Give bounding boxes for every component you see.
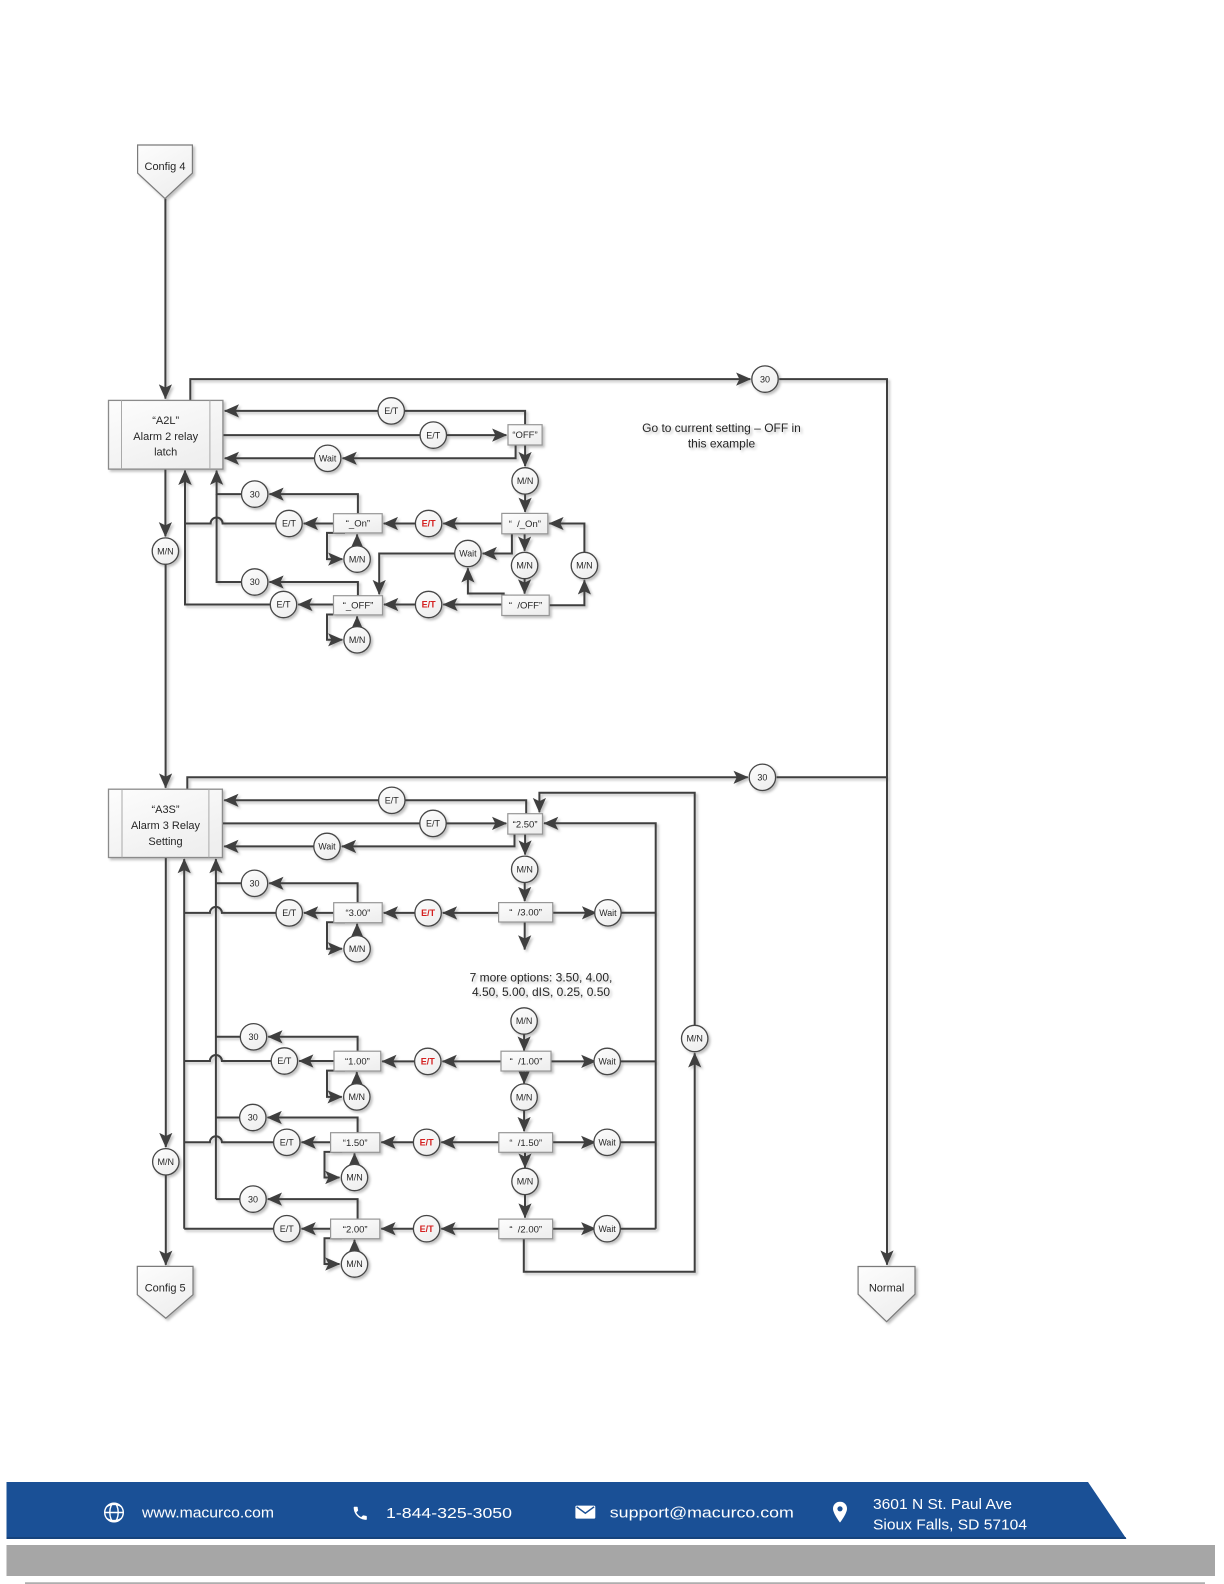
circle M/N under OFF — [512, 468, 538, 494]
svg-text:E/T: E/T — [422, 519, 437, 529]
wire E/T left to A2L bottom with hop — [185, 471, 276, 524]
wire 30 top to Normal — [779, 379, 887, 1265]
icon globe — [105, 1503, 124, 1522]
terminal Normal — [858, 1267, 915, 1322]
wire /3.00 arrow to options note — [524, 922, 526, 950]
wire 30 return rail to A3S — [215, 859, 217, 1199]
wire M/N mid to /OFF — [524, 579, 526, 594]
circle Wait row 3.00 — [595, 900, 621, 926]
wire red E/T 5 to 1.50 — [381, 1141, 413, 1143]
process A2L Alarm 2 relay latch — [109, 400, 223, 469]
icon phone — [354, 1507, 367, 1520]
wire 1.50 to 30 e — [268, 1118, 358, 1133]
svg-text:E/T: E/T — [421, 1057, 436, 1067]
circle M/N right s1 — [571, 552, 597, 578]
svg-text:M/N: M/N — [346, 1259, 363, 1269]
svg-text:M/N: M/N — [158, 1157, 175, 1167]
svg-text:E/T: E/T — [421, 908, 436, 918]
svg-text:“_On”: “_On” — [346, 519, 370, 530]
circle E/T A3S-2.50 — [420, 810, 446, 836]
circle E/T top return s2 — [379, 787, 405, 813]
footer gray band — [7, 1545, 1216, 1576]
svg-text:30: 30 — [250, 577, 260, 587]
svg-text:M/N: M/N — [349, 1092, 366, 1102]
svg-text:E/T: E/T — [384, 406, 399, 416]
svg-text:“ /_On”: “ /_On” — [509, 519, 541, 530]
wire OFF to M/N — [524, 445, 526, 466]
wire A3S to 30 top 2 — [187, 777, 748, 789]
terminal Config 4 — [138, 145, 193, 199]
box OFF — [508, 425, 542, 445]
svg-text:M/N: M/N — [157, 546, 174, 556]
svg-text:1-844-325-3050: 1-844-325-3050 — [386, 1505, 512, 1522]
wire 1.50 to E/T l5 — [302, 1141, 331, 1143]
circle 30 top s1 — [752, 366, 778, 392]
wire /OFF to Wait 2 — [468, 568, 504, 595]
wire 3.00 to E/T l3 — [304, 912, 334, 914]
wire OFF to Wait — [343, 445, 516, 458]
circle 30 row 1.00 — [240, 1024, 266, 1050]
svg-text:Normal: Normal — [869, 1282, 904, 1294]
footer blue band — [7, 1482, 1127, 1539]
wire red E/T to _On — [384, 523, 416, 525]
wire M/N up to _OFF — [356, 616, 358, 627]
svg-text:Alarm 2 relay: Alarm 2 relay — [133, 431, 198, 443]
circle M/N chain top — [511, 1008, 537, 1034]
svg-text:Wait: Wait — [598, 1224, 616, 1234]
svg-text:“ /1.50”: “ /1.50” — [509, 1138, 542, 1149]
svg-text:Wait: Wait — [459, 549, 477, 559]
wire /2.00 to red E/T 6 — [441, 1228, 499, 1230]
svg-text:“1.00”: “1.00” — [345, 1057, 370, 1068]
circle M/N left s1 — [152, 538, 178, 564]
svg-text:this example: this example — [688, 437, 756, 451]
circle red E/T 3.00 — [415, 900, 441, 926]
wire E/T l5 join rail with hop — [184, 1136, 273, 1142]
wire _OFF to E/T left 2 — [298, 604, 333, 606]
wire /_On to Wait 2 — [483, 534, 512, 554]
svg-text:E/T: E/T — [282, 908, 297, 918]
wire M/N to /_On — [524, 494, 526, 512]
box 2.00 — [331, 1219, 380, 1239]
box /3.00 — [499, 903, 553, 922]
wire Wait to A2L — [225, 457, 315, 459]
wire /1.50 to red E/T 5 — [441, 1141, 499, 1143]
circle 30 row 2.00 — [240, 1186, 266, 1212]
circle red E/T 1.50 — [413, 1129, 439, 1155]
svg-text:E/T: E/T — [385, 796, 400, 806]
svg-text:M/N: M/N — [349, 635, 366, 645]
circle Wait row 2.00 — [594, 1216, 620, 1242]
wire E/T left 2 to A2L bottom — [185, 471, 270, 605]
wire /OFF to M/N right — [549, 580, 584, 605]
svg-text:“2.00”: “2.00” — [343, 1224, 368, 1235]
wire /1.50 to Wait r5 — [553, 1141, 596, 1143]
svg-text:30: 30 — [250, 489, 260, 499]
wire /1.00 to M/N chain 1 — [523, 1071, 525, 1083]
wire 2.50 to E/T to A3S (top return) — [224, 800, 526, 813]
wire red E/T 2 to _OFF — [384, 604, 415, 606]
svg-text:“OFF”: “OFF” — [512, 430, 537, 441]
circle Wait 3 s2 — [314, 833, 340, 859]
wire /_On to M/N mid — [524, 534, 526, 551]
box /1.00 — [501, 1051, 551, 1071]
circle 30 row 3.00 — [241, 870, 267, 896]
svg-text:E/T: E/T — [276, 600, 291, 610]
svg-text:Wait: Wait — [598, 1138, 616, 1148]
wire Wait r5 to collector — [620, 1141, 655, 1143]
wire 2.00 to E/T l6 — [302, 1228, 331, 1230]
circle M/N under _On — [344, 546, 370, 572]
icon location pin — [833, 1502, 847, 1523]
circle 30 rail s1 a — [242, 481, 268, 507]
svg-text:latch: latch — [154, 446, 177, 458]
wire Wait r3 to collector — [621, 912, 656, 914]
circle M/N chain 2 — [512, 1168, 538, 1194]
icon envelope — [575, 1506, 595, 1519]
wire /3.00 to Wait r3 — [553, 912, 597, 914]
wire 30 c join — [216, 882, 241, 884]
wire Config4 to A2L — [164, 199, 166, 399]
wire A2L to E/T to OFF — [223, 434, 507, 436]
circle red E/T _On — [415, 510, 441, 536]
wire red E/T 6 to 2.00 — [381, 1228, 413, 1230]
circle red E/T 1.00 — [415, 1048, 441, 1074]
svg-text:E/T: E/T — [280, 1138, 295, 1148]
svg-text:M/N: M/N — [686, 1034, 703, 1044]
wire A3S to E/T to 2.50 — [222, 822, 506, 824]
wire 1.50 M/N loop — [325, 1152, 343, 1178]
svg-text:“3.00”: “3.00” — [345, 908, 370, 919]
circle M/N under 2.50 — [512, 856, 538, 882]
circle 30 row 1.50 — [240, 1104, 266, 1130]
wire 30 to A2L bottom — [217, 471, 242, 495]
wire E/T return rail to A3S — [183, 859, 185, 1229]
box /_On — [502, 513, 548, 533]
svg-text:M/N: M/N — [516, 1016, 533, 1026]
wire _On to 30 — [269, 494, 358, 514]
wire Wait 3 to A3S — [224, 845, 314, 847]
wire 2.50 to Wait 3 — [342, 834, 515, 846]
wire /3.00 to red E/T 3 — [443, 912, 499, 914]
wire A3S to M/N left 2 — [165, 858, 167, 1148]
svg-text:“ /3.00”: “ /3.00” — [509, 908, 542, 919]
wire Wait r4 to collector — [620, 1060, 655, 1062]
circle E/T left 3.00 — [276, 900, 302, 926]
svg-text:“A2L”: “A2L” — [152, 415, 179, 427]
wire 30 d join — [216, 1036, 240, 1038]
svg-text:Wait: Wait — [599, 1057, 617, 1067]
svg-text:Go to current setting – OFF in: Go to current setting – OFF in — [642, 421, 801, 435]
wire 30 e join — [216, 1117, 240, 1119]
svg-text:Config 4: Config 4 — [145, 161, 186, 173]
wire A2L to M/N left — [164, 469, 166, 536]
svg-text:30: 30 — [248, 1113, 258, 1123]
wire 1.00 to 30 d — [268, 1037, 357, 1051]
wire M/N left to A3S — [165, 564, 167, 787]
svg-text:“ /2.00”: “ /2.00” — [509, 1224, 542, 1235]
wire _On to E/T left — [304, 523, 334, 525]
circle M/N under 3.00 — [344, 936, 370, 962]
wire red E/T 4 to 1.00 — [382, 1060, 414, 1062]
svg-text:M/N: M/N — [517, 1177, 534, 1187]
wire 30 top 2 join right rail — [777, 776, 886, 778]
process A3S Alarm 3 Relay Setting — [109, 789, 223, 857]
circle M/N right loop — [682, 1025, 708, 1051]
svg-text:E/T: E/T — [426, 819, 441, 829]
svg-text:30: 30 — [248, 1032, 258, 1042]
circle Wait row 1.50 — [594, 1129, 620, 1155]
svg-text:“_OFF”: “_OFF” — [343, 601, 374, 612]
svg-text:“1.50”: “1.50” — [343, 1138, 368, 1149]
svg-text:30: 30 — [760, 374, 770, 384]
wire Wait r6 to collector — [620, 1228, 655, 1230]
wire 2.00 M/N loop — [325, 1238, 343, 1264]
svg-text:M/N: M/N — [516, 1092, 533, 1102]
bottom hairline — [25, 1582, 1205, 1583]
wire /OFF to red E/T 2 — [443, 604, 502, 606]
wire 3.00 M/N loop — [327, 922, 345, 949]
wire _On M/N loop — [327, 533, 345, 559]
wire 2.50 to M/N 250 — [524, 834, 526, 855]
wire /1.50 to M/N chain 2 — [524, 1152, 526, 1167]
box 2.50 — [508, 814, 543, 834]
wire M/N right loop to 2.50 — [539, 793, 694, 1026]
circle E/T A2L-OFF — [420, 422, 446, 448]
box /2.00 — [499, 1219, 553, 1239]
wire M/N chain to /1.00 — [523, 1034, 525, 1051]
wire 2.00 to 30 f — [268, 1199, 358, 1219]
svg-text:M/N: M/N — [349, 944, 366, 954]
circle Wait 2 s1 — [455, 540, 481, 566]
wire M/N up to 2.00 — [354, 1240, 356, 1252]
svg-text:“ /OFF”: “ /OFF” — [509, 601, 542, 612]
svg-text:E/T: E/T — [277, 1056, 292, 1066]
svg-text:E/T: E/T — [426, 430, 441, 440]
wire Wait 2 to _OFF — [379, 554, 455, 595]
box _OFF — [334, 596, 383, 615]
svg-text:4.50, 5.00, dIS, 0.25, 0.50: 4.50, 5.00, dIS, 0.25, 0.50 — [472, 985, 610, 999]
wire M/N up to 1.50 — [354, 1153, 356, 1165]
circle M/N under _OFF — [344, 627, 370, 653]
svg-text:30: 30 — [249, 879, 259, 889]
svg-text:E/T: E/T — [420, 1138, 435, 1148]
wire M/N up to 3.00 — [356, 924, 358, 936]
wire 3.00 to 30 c — [269, 883, 357, 902]
circle 30 top s2 — [749, 764, 775, 790]
terminal Config 5 — [137, 1266, 193, 1318]
circle red E/T 2.00 — [413, 1216, 439, 1242]
wire Wait collector to 2.50 — [544, 823, 656, 1228]
circle M/N under 2.00 — [341, 1251, 367, 1277]
svg-text:E/T: E/T — [280, 1224, 295, 1234]
footer blue band dark bottom edge — [7, 1537, 1126, 1539]
svg-text:7 more options: 3.50, 4.00,: 7 more options: 3.50, 4.00, — [470, 970, 613, 984]
box 1.00 — [334, 1051, 381, 1071]
circle E/T left 1.00 — [271, 1048, 297, 1074]
note: go to current setting — [642, 421, 801, 451]
svg-text:M/N: M/N — [346, 1173, 363, 1183]
circle red E/T _OFF — [415, 591, 441, 617]
circle E/T top return s1 — [378, 398, 404, 424]
svg-text:Wait: Wait — [318, 842, 336, 852]
wire E/T l6 join rail — [184, 1228, 273, 1230]
circle M/N under 1.50 — [341, 1164, 367, 1190]
wire 30 2 to A2L bottom — [217, 494, 242, 582]
svg-text:Config 5: Config 5 — [145, 1282, 186, 1294]
circle M/N under 1.00 — [344, 1084, 370, 1110]
box _On — [334, 514, 383, 533]
svg-text:M/N: M/N — [576, 561, 593, 571]
svg-text:“ /1.00”: “ /1.00” — [510, 1057, 543, 1068]
wire OFF to E/T to A2L (top return) — [225, 411, 525, 425]
wire /1.00 to red E/T 4 — [443, 1060, 502, 1062]
svg-text:M/N: M/N — [349, 554, 366, 564]
wire M/N up to 1.00 — [356, 1072, 358, 1084]
wire /_On to red E/T — [443, 523, 502, 525]
circle E/T left _On — [276, 510, 302, 536]
circle Wait row 1.00 — [594, 1048, 620, 1074]
wire M/N right to /_On — [549, 524, 584, 553]
svg-text:Wait: Wait — [319, 454, 337, 464]
svg-text:M/N: M/N — [516, 865, 533, 875]
svg-text:30: 30 — [248, 1194, 258, 1204]
wire red E/T 3 to 3.00 — [384, 912, 415, 914]
box /OFF — [502, 595, 549, 615]
wire M/N chain 1 to /1.50 — [523, 1110, 525, 1131]
svg-text:“A3S”: “A3S” — [151, 804, 179, 816]
wire M/N left 2 to Config5 — [165, 1175, 167, 1265]
svg-text:support@macurco.com: support@macurco.com — [610, 1505, 794, 1522]
svg-text:Wait: Wait — [599, 908, 617, 918]
wire /2.00 to Wait r6 — [553, 1228, 596, 1230]
circle M/N chain 1 — [511, 1084, 537, 1110]
wire M/N up to _On — [356, 534, 358, 546]
circle M/N left s2 — [153, 1149, 179, 1175]
circle E/T left _OFF — [270, 591, 296, 617]
svg-text:Alarm 3 Relay: Alarm 3 Relay — [131, 820, 201, 832]
svg-text:M/N: M/N — [517, 476, 534, 486]
wire /2.00 loop to M/N right — [524, 1053, 695, 1272]
wire _OFF to 30 2 — [269, 582, 358, 596]
box 1.50 — [331, 1133, 380, 1153]
svg-text:3601 N St. Paul Ave: 3601 N St. Paul Ave — [873, 1496, 1012, 1513]
box /1.50 — [499, 1133, 553, 1153]
wire _OFF M/N loop — [327, 615, 345, 640]
circle E/T left 2.00 — [274, 1216, 300, 1242]
circle 30 rail s1 b — [242, 569, 268, 595]
circle E/T left 1.50 — [274, 1129, 300, 1155]
wire E/T l3 join rail with hop — [184, 907, 276, 913]
box 3.00 — [334, 903, 383, 923]
svg-text:www.macurco.com: www.macurco.com — [141, 1505, 274, 1522]
wire /1.00 to Wait r4 — [551, 1060, 596, 1062]
svg-text:E/T: E/T — [282, 519, 297, 529]
wire E/T l4 join rail with hop — [184, 1055, 271, 1061]
wire 1.00 M/N loop — [327, 1071, 345, 1097]
circle Wait s1 — [315, 445, 341, 471]
svg-text:30: 30 — [757, 773, 767, 783]
wire 1.00 to E/T l4 — [299, 1060, 334, 1062]
wire 30 f join — [216, 1198, 240, 1200]
svg-text:Sioux Falls, SD 57104: Sioux Falls, SD 57104 — [873, 1517, 1027, 1534]
svg-text:“2.50”: “2.50” — [513, 819, 538, 830]
svg-text:Setting: Setting — [148, 836, 182, 848]
wire M/N chain 2 to /2.00 — [524, 1195, 526, 1218]
svg-text:E/T: E/T — [420, 1224, 435, 1234]
note: 7 more options — [470, 970, 613, 999]
wire M/N 250 to /3.00 — [524, 883, 526, 902]
wire A2L to 30 top — [190, 379, 750, 400]
circle M/N mid s1 — [511, 552, 537, 578]
svg-text:E/T: E/T — [422, 600, 437, 610]
svg-text:M/N: M/N — [516, 561, 533, 571]
